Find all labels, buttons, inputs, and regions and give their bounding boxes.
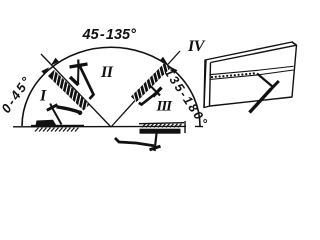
weld bead IV stippled band: [210, 70, 259, 79]
plate I flat hatch: [31, 126, 84, 132]
svg-text:IV: IV: [187, 38, 206, 55]
svg-text:II: II: [100, 64, 114, 81]
plate 135 deg hatched band: [131, 60, 170, 103]
baseline 0-180 horizontal line: [13, 125, 203, 127]
protractor arc: [22, 47, 200, 126]
svg-text:I: I: [39, 88, 47, 105]
arrowheads at 45 deg crossing: [41, 58, 59, 75]
plate overhead hatch: [139, 121, 185, 133]
svg-text:III: III: [156, 99, 174, 115]
radial line 45 deg: [41, 54, 111, 127]
electrode II: [70, 60, 94, 100]
weld bead II on plate: [70, 77, 79, 85]
svg-text:45 - 135°: 45 - 135°: [82, 27, 137, 43]
radial line 135 deg: [111, 51, 180, 127]
electrode I: [47, 104, 82, 125]
arrowheads at 135 deg crossing: [160, 57, 178, 74]
electrode overhead: [115, 134, 161, 152]
electrode on 135 deg plate: [139, 85, 162, 105]
weld bead overhead below plate: [140, 129, 181, 134]
electrode IV: [250, 74, 279, 113]
joint gap line IV right of bead: [258, 66, 294, 75]
plate II 45 deg hatched band: [48, 70, 90, 115]
weld bead I on plate: [36, 120, 57, 126]
panel IV outline: [204, 42, 297, 108]
